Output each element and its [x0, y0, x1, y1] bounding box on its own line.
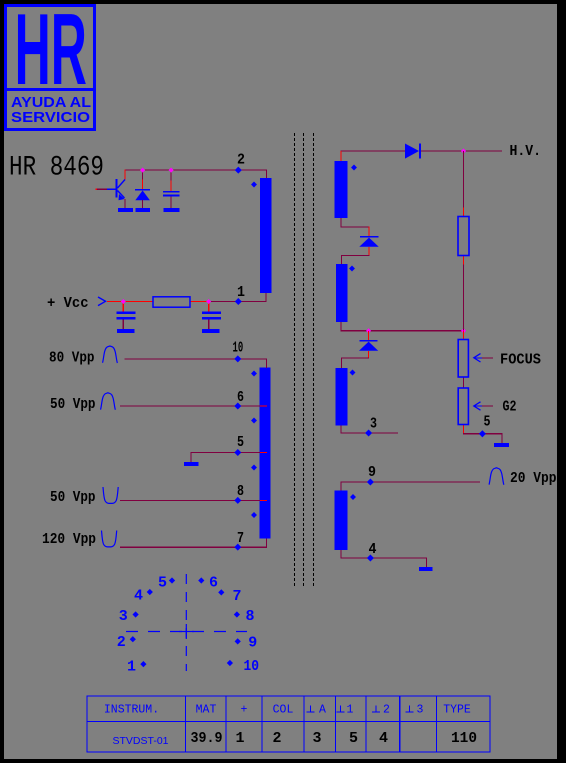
svg-text:50 Vpp: 50 Vpp [50, 489, 96, 506]
pin 5 dot [169, 577, 175, 583]
svg-text:MAT: MAT [196, 704, 217, 717]
svg-text:4: 4 [379, 730, 388, 747]
svg-text:20 Vpp: 20 Vpp [510, 470, 557, 487]
svg-text:50 Vpp: 50 Vpp [50, 396, 96, 413]
junction node (142.5,170) [140, 168, 145, 173]
winding bar3 [334, 161, 347, 218]
polarity dot bar4 [349, 266, 355, 272]
ground pin5 right [494, 443, 509, 447]
svg-text:2: 2 [117, 634, 126, 651]
pin labels bottom view [117, 575, 259, 676]
svg-text:A: A [319, 704, 326, 717]
svg-text:5: 5 [158, 575, 167, 592]
svg-text:1: 1 [347, 704, 354, 717]
pin 1 diamond [235, 298, 242, 305]
capacitor C3 [202, 302, 221, 334]
diode D2 [360, 236, 379, 238]
diode D3 [368, 331, 369, 341]
svg-text:SERVICIO: SERVICIO [11, 109, 90, 126]
polarity dot bar5 [350, 370, 356, 376]
pin 3 diamond [365, 429, 372, 436]
wire pin10 row [120, 358, 267, 547]
pin 4 diamond [367, 554, 374, 561]
pin 1 dot [140, 661, 146, 667]
wire pin3 [341, 426, 399, 434]
svg-text:8: 8 [246, 608, 255, 625]
pin 8 diamond [234, 497, 241, 504]
svg-text:3: 3 [312, 730, 321, 747]
wire pin5 row [191, 452, 261, 453]
winding bar1 (pins 2-1) [260, 178, 272, 293]
svg-text:3: 3 [417, 704, 424, 717]
ground C3 [202, 329, 220, 333]
svg-text:10: 10 [233, 340, 244, 357]
pin 6 diamond [234, 402, 241, 409]
svg-text:6: 6 [237, 389, 244, 406]
polarity dots bar2 [251, 371, 257, 377]
wire collector red [125, 170, 126, 180]
capacitor C2 [117, 302, 136, 334]
svg-text:FOCUS: FOCUS [500, 352, 541, 369]
ground C1 [164, 208, 180, 212]
resistor R1 [458, 217, 469, 256]
wire resistor to junction2 red [190, 301, 209, 302]
wire bar3 top red [341, 151, 342, 161]
svg-text:TYPE: TYPE [443, 704, 471, 717]
pin 2 dot [130, 636, 136, 642]
svg-text:2: 2 [383, 704, 390, 717]
svg-text:4: 4 [369, 541, 377, 558]
HV resistor chain vertical [463, 151, 464, 331]
svg-text:1: 1 [127, 659, 136, 676]
svg-text:10: 10 [244, 658, 260, 675]
svg-text:COL: COL [273, 704, 294, 717]
svg-text:4: 4 [134, 588, 143, 605]
junction node (463.5,330.8) [461, 328, 466, 333]
ground D1 [136, 208, 151, 212]
wire HV rail [341, 150, 406, 151]
wire up to bar1 [265, 293, 266, 302]
waveform pulse pin10 [103, 346, 118, 363]
ground pin4 [419, 567, 433, 571]
wire Vcc red left [107, 301, 153, 302]
svg-text:6: 6 [209, 575, 218, 592]
pin 5 right diamond [479, 430, 486, 437]
resistor R2 focus [458, 340, 468, 378]
transistor Q1 [96, 179, 134, 212]
polarity dot bar6 [350, 494, 356, 500]
transformer core dashed lines [295, 133, 314, 586]
table headers [104, 704, 471, 717]
svg-text:5: 5 [237, 434, 244, 451]
polarity dot bar3 [351, 165, 357, 171]
svg-text:3: 3 [370, 416, 377, 433]
ground C2 [117, 329, 135, 333]
svg-text:2: 2 [272, 730, 281, 747]
svg-text:5: 5 [484, 413, 491, 430]
pin 6 dot [198, 577, 204, 583]
waveform pulse 20Vpp [489, 468, 504, 485]
wire bar3 to D2 [341, 218, 370, 236]
svg-text:9: 9 [248, 635, 257, 652]
svg-text:STVDST-01: STVDST-01 [112, 735, 168, 747]
wire bar4 to junction row [341, 322, 465, 331]
pin 3 dot [132, 611, 138, 617]
wire D2 to bar4 [341, 247, 370, 264]
wire pin5 right [463, 433, 509, 447]
pin 4 dot [147, 589, 153, 595]
diode D1 [135, 170, 150, 213]
svg-text:80 Vpp: 80 Vpp [49, 350, 95, 367]
junction node (208.7,301.5) [206, 299, 211, 304]
winding bar6 [334, 491, 347, 551]
wire pin7 row [120, 547, 267, 548]
svg-text:5: 5 [349, 730, 358, 747]
wire bar1 top drop [266, 170, 267, 179]
svg-text:+: + [241, 704, 248, 717]
pin 7 diamond [234, 544, 241, 551]
winding bar4 [336, 264, 348, 322]
ground pin5 [184, 462, 199, 466]
svg-text:G2: G2 [503, 399, 517, 416]
resistor R4 [153, 297, 190, 307]
svg-text:1: 1 [235, 730, 244, 747]
logo box HR [4, 0, 96, 131]
pin 7 dot [218, 589, 224, 595]
table column lines [185, 696, 187, 752]
pin 9 diamond [367, 478, 374, 485]
svg-text:9: 9 [368, 464, 376, 481]
waveform pulse pin6 [101, 393, 116, 410]
junction node HV (463.5,151) [461, 148, 466, 153]
pin 10 dot [227, 660, 233, 666]
svg-text:INSTRUM.: INSTRUM. [104, 704, 159, 717]
svg-text:H.V.: H.V. [510, 143, 542, 160]
wire top rail pin2 [125, 170, 267, 171]
pin 2 diamond [235, 167, 242, 174]
junction node (123.3,301.5) [121, 299, 126, 304]
wire junction2 to pin1 [209, 301, 267, 302]
ground Q1 [118, 208, 133, 212]
pin 10 diamond [234, 355, 241, 362]
axis vertical dashed [185, 574, 187, 671]
table header divider [87, 721, 490, 723]
svg-text:39.9: 39.9 [191, 730, 223, 747]
svg-text:3: 3 [119, 608, 128, 625]
axis horizontal dashed [126, 631, 247, 633]
waveform dip pin7 [102, 531, 117, 547]
perp symbols in headers [307, 706, 414, 713]
junction node (171,170) [169, 168, 174, 173]
svg-text:2: 2 [237, 152, 245, 169]
svg-text:7: 7 [233, 588, 242, 605]
capacitor C1 [163, 170, 180, 213]
svg-text:HR: HR [15, 0, 87, 106]
svg-text:110: 110 [451, 730, 477, 747]
arrow FOCUS [474, 354, 481, 362]
wire pin6 row [120, 406, 260, 407]
table frame [87, 696, 490, 752]
svg-text:1: 1 [237, 284, 245, 301]
svg-text:8: 8 [237, 483, 244, 500]
arrow G2 [474, 402, 481, 410]
svg-text:+ Vcc: + Vcc [47, 295, 89, 312]
winding bar2 [260, 368, 271, 539]
resistor R3 G2 [458, 388, 468, 425]
pin 9 dot [235, 638, 241, 644]
pin 5 diamond [234, 449, 241, 456]
svg-text:HR 8469: HR 8469 [9, 153, 104, 184]
waveform dip pin8 [103, 487, 118, 503]
Vcc input arrow [98, 297, 106, 306]
junction node (368.6,330.8) [366, 328, 371, 333]
focus divider wires [463, 331, 464, 434]
svg-text:120 Vpp: 120 Vpp [42, 531, 96, 548]
svg-text:7: 7 [237, 530, 244, 547]
pin 8 dot [234, 611, 240, 617]
diode D4 HV [405, 144, 419, 159]
wire pin4 [341, 550, 433, 571]
polarity dot bar1 [251, 182, 257, 188]
wire pin8 row [120, 500, 260, 501]
wire pin9 row [341, 481, 481, 491]
winding bar5 [336, 368, 348, 426]
